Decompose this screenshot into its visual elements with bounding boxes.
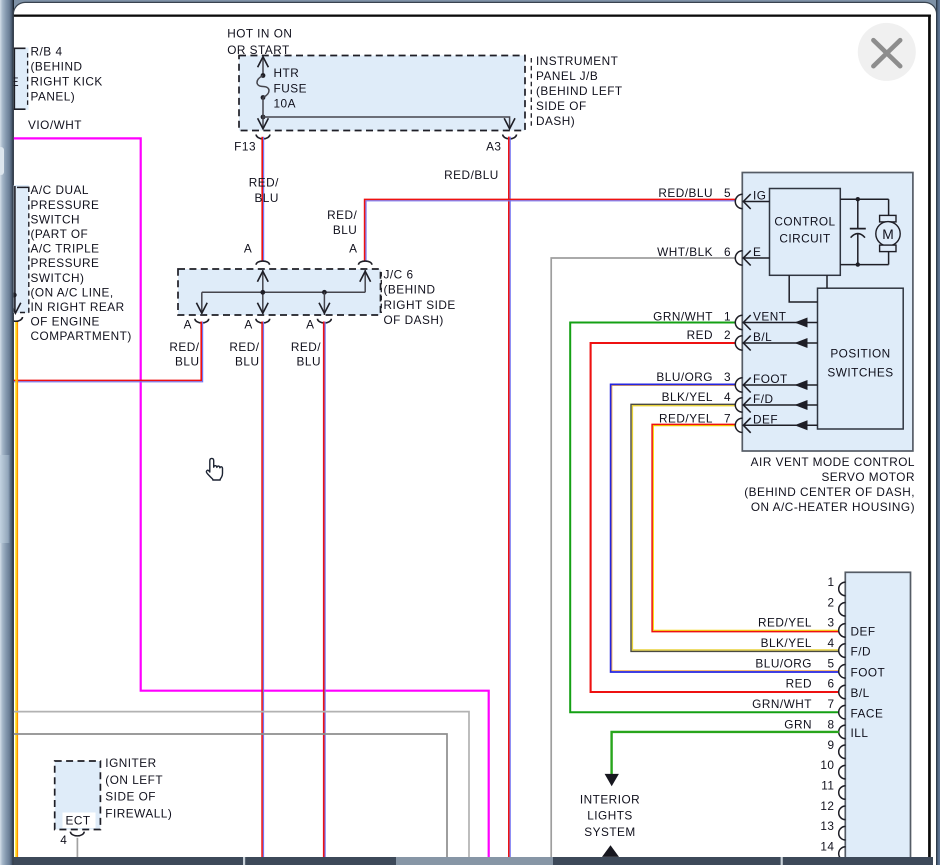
svg-text:SWITCH): SWITCH): [31, 271, 85, 285]
svg-text:(BEHIND CENTER OF DASH,: (BEHIND CENTER OF DASH,: [744, 485, 915, 499]
connector pin 14: [820, 840, 845, 861]
svg-text:RED/BLU: RED/BLU: [658, 186, 713, 200]
arrow from interior lights system (off-screen wire): [602, 845, 619, 857]
connector pin 10: [820, 758, 845, 779]
svg-text:RED/YEL: RED/YEL: [758, 616, 812, 630]
wire RED/BLU from A3 down off-screen: [509, 137, 510, 857]
label RED/YEL pin 3: [758, 616, 812, 630]
svg-text:VENT: VENT: [753, 310, 786, 324]
svg-text:BLU: BLU: [254, 191, 278, 205]
svg-text:A: A: [184, 318, 192, 332]
label GRN/WHT pin 7: [752, 697, 812, 711]
connector A3: [486, 135, 516, 154]
svg-text:SIDE OF: SIDE OF: [105, 790, 156, 804]
svg-text:A/C TRIPLE: A/C TRIPLE: [31, 242, 100, 256]
svg-text:GRN/WHT: GRN/WHT: [752, 697, 812, 711]
junction connector J/C 6 (dashed box): [178, 269, 381, 315]
connector pin 7: [827, 697, 883, 720]
motor M1: [876, 199, 900, 264]
connector pin 12: [820, 799, 845, 820]
svg-text:RED/YEL: RED/YEL: [659, 411, 713, 425]
svg-text:OR START: OR START: [227, 43, 290, 57]
label BLK/YEL pin 4: [662, 390, 731, 404]
wire WHT (left, upper): [14, 712, 469, 857]
svg-text:BLU: BLU: [333, 223, 357, 237]
wire WHT/BLK from servo E pin: [551, 258, 735, 857]
horizontal scrollbar: [14, 857, 933, 865]
svg-text:(ON LEFT: (ON LEFT: [105, 773, 163, 787]
connector A (J/C bottom exit 3): [306, 318, 331, 332]
wire RED (B/L pin 2 to connector pin 6): [591, 343, 839, 692]
svg-text:FIREWALL): FIREWALL): [105, 806, 172, 820]
svg-text:PRESSURE: PRESSURE: [31, 256, 100, 270]
connector 4 (igniter): [60, 832, 84, 847]
svg-text:14: 14: [820, 840, 834, 854]
svg-text:A: A: [306, 318, 314, 332]
svg-text:FOOT: FOOT: [753, 372, 788, 386]
wire BLU/ORG (FOOT pin 3 to connector pin 5): [611, 384, 839, 672]
motor supply rails: [840, 197, 888, 267]
label RED pin 2: [687, 328, 731, 342]
svg-text:FACE: FACE: [851, 706, 884, 720]
connector pin 6: [827, 677, 869, 700]
svg-text:VIO/WHT: VIO/WHT: [28, 118, 82, 132]
svg-text:RED/: RED/: [169, 340, 199, 354]
svg-text:SERVO MOTOR: SERVO MOTOR: [821, 470, 915, 484]
connector pin 3: [827, 616, 875, 639]
svg-text:DASH): DASH): [536, 114, 575, 128]
svg-text:1: 1: [724, 310, 731, 324]
connector pin 4: [827, 636, 871, 659]
svg-text:(PART OF: (PART OF: [31, 227, 89, 241]
svg-text:ON A/C-HEATER HOUSING): ON A/C-HEATER HOUSING): [751, 500, 915, 514]
svg-text:PRESSURE: PRESSURE: [31, 198, 100, 212]
svg-text:POSITION: POSITION: [830, 347, 890, 361]
servo pin 1 VENT: [735, 310, 817, 330]
label ECT inside igniter: [63, 813, 96, 829]
svg-text:RED: RED: [687, 328, 713, 342]
svg-text:A: A: [349, 242, 357, 256]
fuse HTR FUSE 10A: [257, 57, 269, 129]
svg-text:5: 5: [827, 656, 834, 670]
close (X) button: [858, 23, 916, 81]
svg-text:J/C 6: J/C 6: [384, 268, 414, 282]
svg-text:FOOT: FOOT: [851, 665, 886, 679]
junction block: instrument panel J/B (dashed box): [239, 56, 525, 131]
servo pin 6 E: [735, 245, 769, 265]
svg-text:A/C DUAL: A/C DUAL: [31, 183, 89, 197]
svg-text:RIGHT KICK: RIGHT KICK: [31, 75, 103, 89]
svg-text:SWITCH: SWITCH: [31, 212, 81, 226]
label HOT IN ON OR START: [227, 26, 292, 57]
svg-text:GRN/WHT: GRN/WHT: [653, 310, 713, 324]
svg-text:4: 4: [827, 636, 834, 650]
svg-text:10: 10: [820, 758, 834, 772]
svg-text:(BEHIND: (BEHIND: [31, 60, 83, 74]
svg-text:RED/: RED/: [327, 208, 357, 222]
air vent mode control servo motor (outer box): [742, 173, 913, 452]
label RED/BLU (exit 2): [229, 340, 259, 369]
wire GRY from igniter: [76, 838, 78, 857]
wire RED/BLU J/C exit 3 down off-screen: [324, 322, 325, 858]
svg-text:(ON A/C LINE,: (ON A/C LINE,: [31, 285, 114, 299]
label WHT/BLK pin 6: [657, 245, 731, 259]
diagram frame top border: [14, 15, 931, 17]
wire RED/BLU J/C exit 2 down off-screen: [262, 322, 263, 858]
svg-text:RED/: RED/: [291, 340, 321, 354]
svg-text:CIRCUIT: CIRCUIT: [779, 231, 830, 245]
wire YEL from A/C switch down off-screen: [16, 322, 17, 857]
wire RED/BLU J/C exit 1 to A/C pressure switch: [14, 322, 203, 382]
svg-text:4: 4: [60, 833, 67, 847]
svg-text:12: 12: [820, 799, 834, 813]
label RED/BLU pin 5: [658, 186, 731, 200]
svg-text:INSTRUMENT: INSTRUMENT: [536, 54, 618, 68]
label: A/C DUAL PRESSURE SWITCH: [31, 183, 132, 343]
igniter (dashed box): [55, 761, 101, 830]
svg-text:3: 3: [827, 616, 834, 630]
label GRN pin 8: [784, 717, 812, 731]
svg-text:B/L: B/L: [753, 330, 772, 344]
connector pin 5: [827, 656, 885, 679]
diagram frame right border: [928, 15, 931, 858]
connector pin 13: [820, 819, 845, 840]
svg-text:HTR: HTR: [274, 66, 300, 80]
label GRN/WHT pin 1: [653, 310, 731, 324]
svg-text:DEF: DEF: [851, 625, 876, 639]
relay block R/B 4 (partially off-screen at left): [11, 48, 29, 111]
svg-text:BLU: BLU: [235, 354, 259, 368]
svg-text:F/D: F/D: [851, 645, 872, 659]
label: IGNITER (ON LEFT SIDE OF FIREWALL): [105, 756, 172, 820]
label RED/BLU (under A3): [444, 168, 499, 182]
svg-text:HOT IN ON: HOT IN ON: [227, 26, 292, 40]
svg-text:A: A: [244, 242, 252, 256]
svg-text:E: E: [11, 75, 19, 89]
svg-text:ECT: ECT: [66, 814, 91, 828]
label RED/BLU (under F13): [249, 176, 279, 205]
connector F13: [234, 135, 270, 154]
svg-text:COMPARTMENT): COMPARTMENT): [31, 329, 132, 343]
connector (A/C switch): [9, 317, 23, 321]
svg-text:OF ENGINE: OF ENGINE: [31, 315, 100, 329]
label RED/YEL pin 7: [659, 411, 731, 425]
servo pin 3 FOOT: [735, 372, 817, 392]
svg-text:6: 6: [827, 677, 834, 691]
svg-text:SYSTEM: SYSTEM: [584, 825, 636, 839]
svg-text:2: 2: [827, 595, 834, 609]
servo pin 4 F/D: [735, 392, 817, 412]
svg-text:A3: A3: [486, 140, 501, 154]
svg-text:F13: F13: [234, 140, 256, 154]
svg-text:BLU: BLU: [175, 354, 199, 368]
connector A (J/C bottom exit 2): [244, 318, 269, 332]
label: AIR VENT MODE CONTROL SERVO MOTOR: [744, 455, 915, 514]
svg-text:AIR VENT MODE CONTROL: AIR VENT MODE CONTROL: [751, 455, 915, 469]
svg-text:R/B 4: R/B 4: [31, 44, 63, 58]
svg-text:7: 7: [827, 697, 834, 711]
label RED/BLU (exit 3): [291, 340, 321, 369]
svg-text:RED/: RED/: [249, 176, 279, 190]
wire RED/BLU from J/C 6 up and right to servo IG: [365, 199, 736, 261]
label: J/C 6 (BEHIND RIGHT SIDE OF DASH): [381, 268, 455, 328]
svg-text:DEF: DEF: [753, 412, 778, 426]
svg-text:M: M: [882, 227, 894, 242]
svg-text:BLK/YEL: BLK/YEL: [761, 636, 812, 650]
svg-text:BLU: BLU: [297, 354, 321, 368]
svg-text:A: A: [244, 318, 252, 332]
connector pin 11: [821, 779, 845, 800]
svg-text:OF DASH): OF DASH): [384, 313, 444, 327]
wire inside J/B to A3: [263, 117, 515, 129]
svg-text:BLU/ORG: BLU/ORG: [656, 370, 713, 384]
svg-text:2: 2: [724, 328, 731, 342]
wire RED/BLU from F13 down to J/C 6: [262, 137, 263, 261]
svg-text:3: 3: [724, 370, 731, 384]
svg-text:LIGHTS: LIGHTS: [587, 809, 633, 823]
svg-text:IGNITER: IGNITER: [105, 756, 156, 770]
svg-text:RED/: RED/: [229, 340, 259, 354]
svg-text:RED: RED: [786, 677, 812, 691]
label: INTERIOR LIGHTS SYSTEM: [580, 792, 640, 839]
svg-text:1: 1: [827, 575, 834, 589]
connector A (J/C bottom exit 1): [184, 318, 209, 332]
svg-text:6: 6: [724, 245, 731, 259]
svg-text:5: 5: [724, 186, 731, 200]
wire BLK/YEL (F/D pin 4 to connector pin 4): [631, 404, 839, 651]
svg-text:PANEL J/B: PANEL J/B: [536, 69, 598, 83]
wire GRN (pin 8 to interior lights system): [605, 732, 839, 786]
svg-text:13: 13: [820, 819, 834, 833]
label RED pin 6: [786, 677, 812, 691]
connector pin 1: [827, 575, 845, 596]
label RED/BLU (exit 1): [169, 340, 199, 369]
14-pin connector box: [845, 572, 910, 865]
svg-text:7: 7: [724, 411, 731, 425]
svg-text:F/D: F/D: [753, 392, 774, 406]
label: INSTRUMENT PANEL J/B: [531, 54, 622, 128]
wire VIO/WHT (magenta): [14, 138, 489, 857]
svg-text:IG: IG: [753, 189, 766, 203]
svg-text:CONTROL: CONTROL: [774, 214, 835, 228]
wire GRY (left, lower): [14, 734, 447, 857]
svg-text:RIGHT SIDE: RIGHT SIDE: [384, 298, 456, 312]
servo pin 2 B/L: [735, 330, 817, 350]
svg-text:B/L: B/L: [851, 686, 870, 700]
svg-text:PANEL): PANEL): [31, 90, 76, 104]
servo pin 5 IG: [735, 189, 769, 209]
connector pin 2: [827, 595, 845, 616]
label RED/BLU (at J/C entry): [327, 208, 357, 237]
capacitor C1: [850, 199, 866, 264]
J/C 6 internal bus: [196, 269, 370, 315]
wire control circuit to position switches (2): [826, 275, 828, 288]
label BLK/YEL pin 4: [761, 636, 812, 650]
position switches box: [818, 288, 904, 429]
svg-text:SIDE OF: SIDE OF: [536, 99, 587, 113]
svg-text:9: 9: [827, 738, 834, 752]
svg-text:11: 11: [821, 779, 834, 793]
label BLU/ORG pin 5: [755, 656, 812, 670]
svg-text:8: 8: [827, 717, 834, 731]
svg-text:10A: 10A: [274, 96, 297, 110]
svg-text:ILL: ILL: [851, 726, 869, 740]
mouse cursor (hand pointer): [206, 458, 222, 480]
svg-text:4: 4: [724, 390, 731, 404]
A/C dual pressure switch (partially off-screen): [10, 185, 29, 313]
svg-text:(BEHIND: (BEHIND: [384, 283, 436, 297]
connector A (J/C top entry 2): [349, 242, 372, 265]
svg-text:IN RIGHT REAR: IN RIGHT REAR: [31, 300, 125, 314]
svg-text:BLK/YEL: BLK/YEL: [662, 390, 713, 404]
svg-text:GRN: GRN: [784, 717, 812, 731]
svg-text:SWITCHES: SWITCHES: [827, 366, 893, 380]
label VIO/WHT: [28, 118, 82, 132]
svg-text:BLU/ORG: BLU/ORG: [755, 656, 812, 670]
svg-text:E: E: [753, 245, 761, 259]
wire GRN/WHT (VENT pin 1 to connector pin 7): [570, 323, 839, 713]
wire RED/YEL (DEF pin 7 to connector pin 3): [652, 424, 839, 631]
label: HTR FUSE 10A: [274, 66, 307, 110]
svg-text:INTERIOR: INTERIOR: [580, 792, 640, 806]
svg-text:RED/BLU: RED/BLU: [444, 168, 499, 182]
connector pin 9: [827, 738, 845, 759]
svg-text:(BEHIND LEFT: (BEHIND LEFT: [536, 84, 623, 98]
wire control circuit to position switches: [789, 275, 817, 302]
label BLU/ORG pin 3: [656, 370, 731, 384]
servo pin 7 DEF: [735, 412, 817, 432]
connector pin 8: [827, 717, 868, 740]
label: R/B 4: [31, 44, 103, 103]
svg-text:FUSE: FUSE: [274, 81, 307, 95]
control circuit box U1: [770, 189, 841, 276]
connector A (J/C top entry 1): [244, 242, 270, 265]
svg-text:WHT/BLK: WHT/BLK: [657, 245, 713, 259]
